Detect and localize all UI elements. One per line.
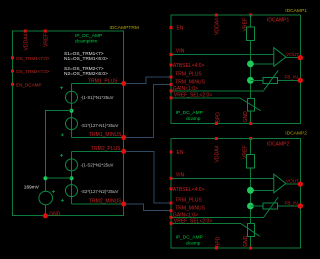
junction node (rail at tap2) — [43, 176, 47, 180]
pin VIN (IDCAMP1) — [170, 49, 185, 57]
svg-text:VDDA4: VDDA4 — [215, 18, 221, 35]
svg-text:GAIN<1:0>: GAIN<1:0> — [173, 86, 198, 92]
svg-text:TRM_PLUS: TRM_PLUS — [175, 197, 202, 203]
wire TRM2_PLUS (internal) — [72, 150, 124, 152]
pin EN (IDCAMP2) — [170, 150, 184, 156]
pin TRM_PLUS (IDCAMP1) — [170, 71, 203, 78]
label IDCAMP2 (yellow instance name) — [285, 131, 307, 137]
wire op-amp output to VOUT (IDCAMP2) — [286, 183, 301, 185]
voltage source V0 169mV — [24, 185, 55, 205]
svg-text:EN: EN — [177, 150, 184, 156]
svg-text:TRM2_PLUS: TRM2_PLUS — [91, 146, 121, 152]
junction node (rail1 to tap) — [70, 109, 74, 113]
wire VIN to op-amp (IDCAMP2) — [171, 177, 274, 179]
pin FB_IN (IDCAMP1) — [285, 75, 303, 83]
pin GND (left block bottom) — [43, 211, 61, 218]
current source I1 — [60, 86, 114, 103]
svg-text:dcamp: dcamp — [186, 116, 201, 122]
wire current source rail 1 — [71, 84, 73, 138]
wire minus input (IDCAMP2) — [250, 189, 273, 191]
svg-text:OS_TRM2<7:0>: OS_TRM2<7:0> — [16, 69, 50, 74]
wire dot2 to FB resistor to FB_IN (IDCAMP1) — [250, 79, 300, 81]
pin BPD (IDCAMP2 bottom) — [215, 236, 221, 249]
pin TRM_MINUS (IDCAMP1) — [170, 79, 206, 86]
wire current source rail 2 — [71, 151, 73, 204]
label IDCAMP1 (red inside) — [267, 18, 289, 24]
pin ATBSEL<4:0> (IDCAMP1) — [170, 63, 205, 69]
pin VIN (IDCAMP2) — [170, 172, 185, 180]
label IDCAMP2 (red inside) — [267, 141, 289, 147]
pin VOUT (IDCAMP1) — [286, 52, 303, 60]
wire VREF to resistor to rail (IDCAMP2) — [250, 139, 252, 249]
pin VDDA4 (IDCAMP1 top) — [215, 14, 221, 36]
resistor RV (IDCAMP2 vertical variable) — [240, 223, 259, 236]
junction node (rail2 to tap) — [70, 176, 74, 180]
pin GAIN<1:0> (IDCAMP1) — [170, 86, 198, 92]
junction node dot2 (IDCAMP1) — [247, 77, 254, 84]
svg-text:IDCAMP2: IDCAMP2 — [285, 131, 307, 137]
pin GND (IDCAMP2 bottom) — [243, 235, 252, 249]
resistor RFB (IDCAMP2 horizontal variable) — [263, 197, 278, 217]
svg-text:FB_IN: FB_IN — [285, 200, 298, 205]
node TRM1_MINUS label and pin dot — [89, 132, 126, 140]
wire tap rail (left vertical) — [45, 111, 71, 216]
wire TRM2_MINUS to IDCAMP2 TRM_MINUS (blue net) — [124, 204, 171, 211]
svg-text:VIN: VIN — [176, 49, 185, 55]
wire TRM1_PLUS to IDCAMP1 TRM_PLUS (blue net) — [124, 77, 171, 84]
svg-text:IDCAMP2: IDCAMP2 — [267, 141, 289, 147]
resistor R1 (IDCAMP2 top) — [247, 155, 255, 169]
svg-text:EN_DCAMP: EN_DCAMP — [16, 83, 42, 88]
pin TRM_PLUS (IDCAMP2) — [170, 197, 203, 204]
wire TRM2_MINUS (internal) — [72, 203, 124, 205]
wire TRM1_MINUS (internal) — [72, 137, 124, 139]
svg-text:IP_DC_AMP: IP_DC_AMP — [176, 110, 203, 116]
pin OS_TRM1<7:0> — [11, 56, 50, 61]
svg-text:TRM_MINUS: TRM_MINUS — [175, 79, 205, 85]
svg-text:TRM2_MINUS: TRM2_MINUS — [89, 199, 122, 205]
svg-text:GND: GND — [49, 211, 61, 217]
svg-text:VDDA4: VDDA4 — [24, 33, 30, 50]
svg-text:VOUT: VOUT — [286, 52, 299, 57]
resistor RFB (IDCAMP1 horizontal variable) — [263, 70, 278, 90]
pin FB_IN (IDCAMP2) — [285, 200, 303, 208]
pin VREF_SEL<2:0> (IDCAMP1) — [170, 92, 213, 99]
pin VDDA4 (IDCAMP2 top) — [215, 137, 221, 163]
svg-text:IDCAMP1: IDCAMP1 — [285, 8, 307, 14]
pin ATBSEL<4:0> (IDCAMP2) — [170, 187, 205, 193]
wire VREF_SEL to RV arrow (IDCAMP1) — [171, 97, 240, 99]
wire VREF to resistor to rail (IDCAMP1) — [250, 15, 252, 124]
node TRM1_PLUS label and pin dot — [88, 78, 126, 86]
svg-text:VOUT: VOUT — [286, 178, 299, 183]
pin TRM_MINUS (IDCAMP2) — [170, 206, 206, 213]
svg-text:-S2*(127-N2)*25uV: -S2*(127-N2)*25uV — [81, 189, 119, 194]
pin BPD (IDCAMP1 bottom) — [215, 112, 221, 125]
svg-text:VREF_SEL<2:0>: VREF_SEL<2:0> — [174, 92, 212, 98]
svg-text:GAIN<1:0>: GAIN<1:0> — [173, 213, 198, 219]
wire minus input (IDCAMP1) — [250, 63, 273, 65]
svg-text:IP_DC_AMP: IP_DC_AMP — [176, 235, 203, 241]
svg-text:FB_IN: FB_IN — [285, 75, 298, 80]
wire TRM1_PLUS (internal) — [72, 83, 124, 85]
svg-text:IP_DC_AMP: IP_DC_AMP — [75, 33, 102, 39]
svg-text:VIN: VIN — [176, 172, 185, 178]
junction node dot1 (IDCAMP2) — [247, 187, 254, 194]
op-amp U1 (IDCAMP1) — [274, 48, 286, 67]
wire TRM2_PLUS to IDCAMP2 TRM_PLUS (blue net) — [124, 151, 171, 203]
svg-text:BPD: BPD — [215, 236, 221, 247]
current source I3 — [60, 154, 114, 171]
wire TRM1_MINUS to IDCAMP1 TRM_MINUS (blue net) — [124, 85, 171, 138]
resistor R1 (IDCAMP1 top) — [247, 27, 255, 41]
wire GAIN to RFB arrow (IDCAMP2) — [171, 216, 264, 218]
node TRM2_PLUS label and pin dot — [91, 146, 126, 154]
svg-text:dcamptrim: dcamptrim — [75, 39, 97, 45]
resistor RV (IDCAMP1 vertical variable) — [240, 98, 261, 111]
current source I4 — [61, 185, 118, 202]
pin EN (IDCAMP1) — [170, 25, 184, 31]
note S2/N2 parameter text — [64, 66, 108, 77]
svg-text:VDDA4: VDDA4 — [215, 145, 221, 162]
note S1/N1 parameter text — [64, 51, 108, 62]
wire VREF_SEL to RV arrow (IDCAMP2) — [171, 222, 240, 224]
block IDCAMP1 outline — [171, 15, 301, 124]
junction node dot2 (IDCAMP2) — [247, 203, 254, 210]
svg-text:EN: EN — [177, 25, 184, 31]
pin VREF_SEL<2:0> (IDCAMP2) — [170, 219, 213, 225]
svg-text:-(1-S2)*N2*25uV: -(1-S2)*N2*25uV — [81, 162, 114, 167]
svg-text:TRM_PLUS: TRM_PLUS — [175, 71, 202, 77]
svg-text:VREF: VREF — [44, 33, 50, 47]
wire op-amp output to VOUT (IDCAMP1) — [286, 57, 301, 59]
block IDCAMP2 outline — [171, 139, 301, 249]
pin GAIN<1:0> (IDCAMP2) — [170, 213, 198, 219]
wire GAIN to RFB arrow (IDCAMP1) — [171, 90, 264, 92]
svg-text:TRM_MINUS: TRM_MINUS — [175, 206, 205, 212]
svg-text:ATBSEL<4:0>: ATBSEL<4:0> — [173, 187, 205, 193]
label IDCAMPTRM (yellow instance name) — [109, 25, 139, 31]
pin VREF (IDCAMP1 top) — [243, 14, 253, 32]
svg-text:-S1*(127-N1)*25uV: -S1*(127-N1)*25uV — [81, 123, 119, 128]
svg-text:-(1-S1)*N1*25uV: -(1-S1)*N1*25uV — [81, 95, 114, 100]
pin VOUT (IDCAMP2) — [286, 178, 303, 186]
svg-text:N2=OS_TRM2<6:0>: N2=OS_TRM2<6:0> — [64, 71, 108, 77]
label IP_DC_AMP / dcamp (IDCAMP2 cell name) — [176, 235, 203, 247]
label IP_DC_AMP / dcamp (IDCAMP1 cell name) — [176, 110, 203, 122]
node TRM2_MINUS label and pin dot — [89, 199, 126, 207]
current source I2 — [61, 118, 118, 137]
svg-text:GND: GND — [243, 111, 249, 123]
label IP_DC_AMP / dcamptrim (cell name) — [75, 33, 102, 45]
svg-text:N1=OS_TRM1<6:0>: N1=OS_TRM1<6:0> — [64, 56, 108, 62]
svg-text:169mV: 169mV — [24, 185, 40, 191]
block IDCAMPTRM outline — [13, 31, 124, 216]
svg-text:BPD: BPD — [215, 112, 221, 123]
pin GND (IDCAMP1 bottom) — [243, 111, 252, 125]
svg-text:OS_TRM1<7:0>: OS_TRM1<7:0> — [16, 56, 50, 61]
svg-text:dcamp: dcamp — [186, 241, 201, 247]
svg-text:IDCAMP1: IDCAMP1 — [267, 18, 289, 24]
wire dot2 to FB resistor to FB_IN (IDCAMP2) — [250, 205, 300, 207]
pin EN_DCAMP — [11, 83, 42, 88]
pin VREF (IDCAMP2 top) — [243, 137, 253, 159]
svg-text:GND: GND — [243, 235, 249, 247]
junction node dot1 (IDCAMP1) — [247, 61, 254, 68]
op-amp U2 (IDCAMP2) — [274, 174, 286, 193]
pin VDDA4 (left block top) — [24, 30, 30, 51]
pin VREF (left block top) — [44, 30, 50, 48]
wire VIN to op-amp (IDCAMP1) — [171, 54, 274, 56]
label IDCAMP1 (yellow instance name) — [285, 8, 307, 14]
svg-text:ATBSEL<4:0>: ATBSEL<4:0> — [173, 63, 205, 69]
svg-text:IDCAMPTRM: IDCAMPTRM — [109, 25, 139, 31]
svg-text:TRM1_MINUS: TRM1_MINUS — [89, 132, 122, 138]
pin OS_TRM2<7:0> — [11, 69, 50, 74]
svg-text:TRM1_PLUS: TRM1_PLUS — [88, 78, 118, 84]
svg-text:VREF_SEL<2:0>: VREF_SEL<2:0> — [174, 219, 212, 225]
